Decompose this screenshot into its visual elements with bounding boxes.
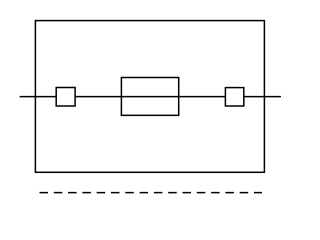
ground dashed line [40,192,263,194]
component U1 [121,78,178,116]
terminal right [225,88,243,106]
terminal left [56,88,75,107]
wire [20,96,281,98]
enclosure box [35,21,264,173]
